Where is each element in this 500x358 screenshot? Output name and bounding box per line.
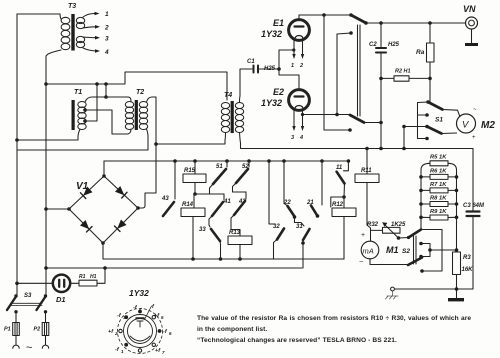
wire alt contact top down to E2 pin4 wire — [337, 33, 351, 115]
svg-text:E1: E1 — [273, 18, 284, 28]
svg-text:R5 1K: R5 1K — [430, 155, 447, 161]
wire bridge top to bus3 — [103, 161, 105, 176]
wire T4 secondary bottom to long bus — [240, 133, 474, 149]
svg-text:41: 41 — [223, 199, 231, 205]
E2 pin 3 lead — [293, 111, 295, 128]
resistor R2 — [394, 76, 409, 81]
terminal chassis — [391, 287, 395, 291]
S1 bracket — [418, 102, 429, 139]
svg-text:31: 31 — [296, 224, 303, 230]
svg-text:R13: R13 — [229, 230, 241, 236]
bus3 horizontal y161 — [104, 160, 349, 162]
svg-text:~: ~ — [26, 342, 32, 354]
wire top rail to VN — [366, 22, 465, 24]
switch gang shaft — [357, 25, 359, 116]
switch 21 — [320, 159, 324, 163]
wire S1 top blade to voltmeter — [443, 110, 460, 117]
svg-text:22: 22 — [283, 200, 291, 206]
wire bridge bottom to bus1 — [102, 243, 104, 259]
node T1 tap upper — [83, 108, 87, 112]
svg-text:S3: S3 — [24, 293, 32, 299]
switch blade top (reversing) — [351, 15, 366, 23]
switch 51 — [225, 159, 229, 163]
wire E2 pin4 to switch pole2 — [303, 114, 351, 116]
switch 32 — [267, 159, 271, 163]
E2 pin 4 lead — [302, 111, 304, 128]
svg-text:T1: T1 — [74, 89, 82, 96]
svg-text:C1: C1 — [247, 59, 255, 65]
T3 pin 1 lead — [83, 14, 94, 18]
transformer T2 — [125, 100, 147, 130]
capacitor C2 — [380, 23, 382, 47]
svg-text:M2: M2 — [481, 120, 495, 131]
resistor ladder R8 — [430, 202, 448, 207]
resistor R14 — [181, 208, 205, 217]
svg-text:11: 11 — [336, 165, 343, 171]
svg-text:P1: P1 — [4, 327, 11, 333]
transformer T3 — [60, 14, 85, 51]
V1 diode top-right — [115, 186, 127, 198]
svg-text:R15: R15 — [184, 168, 196, 174]
switch 33 — [211, 229, 220, 241]
svg-text:R32: R32 — [367, 222, 379, 228]
svg-text:3: 3 — [105, 36, 109, 43]
resistor R13 — [228, 236, 252, 245]
T3 pin 3 lead — [83, 36, 96, 39]
svg-text:21: 21 — [306, 200, 314, 206]
svg-text:R14: R14 — [182, 202, 194, 208]
svg-text:4: 4 — [299, 135, 303, 141]
resistor Ra — [429, 23, 431, 43]
socket pin labels — [108, 304, 172, 355]
V1 diode top-left — [81, 187, 93, 199]
switch 42 — [245, 192, 247, 199]
voltmeter M2 — [457, 114, 476, 133]
svg-text:M1: M1 — [386, 245, 399, 255]
resistor ladder R9 — [430, 215, 448, 220]
socket pins — [138, 310, 142, 314]
resistor ladder R5 — [430, 161, 448, 166]
svg-text:in the component list.: in the component list. — [197, 326, 267, 333]
svg-text:The value of the resistor Ra i: The value of the resistor Ra is chosen f… — [197, 315, 471, 322]
node on wire y84 — [104, 82, 108, 86]
wire junction to T1-T2 top — [105, 84, 107, 97]
svg-text:R3: R3 — [463, 255, 471, 261]
svg-text:VN: VN — [463, 4, 476, 14]
wire rail B — [45, 56, 47, 297]
wire blade bottom tip to C2 column — [364, 122, 381, 124]
svg-text:+: + — [361, 232, 365, 239]
E1 pin 2 lead — [302, 41, 304, 56]
svg-text:mA: mA — [363, 247, 374, 256]
svg-text:H1: H1 — [90, 274, 97, 280]
wire y194 link — [195, 193, 224, 195]
resistor R11 — [365, 147, 369, 151]
wire rail A left — [16, 14, 18, 297]
tube E1 — [289, 15, 310, 40]
E1 pin 1 lead — [293, 41, 295, 56]
wire T2 right top down to bridge right vertex — [138, 97, 156, 208]
resistor ladder R7 — [430, 188, 448, 193]
resistor R1 — [70, 282, 79, 284]
milliammeter M1 — [361, 241, 379, 259]
svg-text:2: 2 — [299, 63, 303, 69]
svg-text:2: 2 — [114, 331, 118, 336]
svg-text:H25: H25 — [264, 66, 276, 72]
svg-text:1K25: 1K25 — [391, 222, 406, 228]
T3 pin labels — [104, 11, 109, 56]
lamp D1 — [53, 275, 70, 292]
bus2 horizontal y268 — [46, 267, 302, 269]
switch 11 — [344, 161, 349, 171]
svg-text:T3: T3 — [68, 3, 76, 10]
V1 diode bottom-left — [80, 220, 92, 232]
switch S2 top blade — [409, 230, 422, 238]
wire C1 to E2 top — [279, 69, 299, 89]
switch 22 — [282, 159, 286, 163]
svg-text:51: 51 — [216, 164, 223, 170]
node C1 output — [277, 67, 281, 71]
resistor R32 (adjustable) — [371, 230, 383, 241]
svg-text:2: 2 — [104, 25, 109, 32]
svg-text:1: 1 — [291, 63, 294, 69]
svg-text:32: 32 — [273, 224, 280, 230]
ground under VN — [471, 29, 473, 43]
switch 31 — [303, 229, 310, 240]
ground bar bottom right — [448, 298, 464, 301]
wire T1 top to T2 top — [85, 97, 131, 102]
node R2 junction — [428, 77, 432, 81]
wire bridge left vertex to rail B — [46, 208, 69, 210]
fuse P1 — [15, 312, 17, 323]
wire D1 left to rail A — [17, 282, 53, 284]
svg-text:V1: V1 — [76, 181, 89, 192]
bus1 horizontal y259 — [103, 258, 344, 260]
svg-text:R7 1K: R7 1K — [430, 182, 447, 188]
svg-text:1Y32: 1Y32 — [261, 29, 282, 39]
wire rail B to T4 primary top — [46, 72, 227, 100]
wire x324 vertical to lower alt contact — [324, 15, 350, 130]
S2 middle contacts — [419, 242, 423, 246]
node x324 tap — [322, 13, 326, 17]
svg-text:D1: D1 — [56, 295, 66, 304]
terminal VN — [466, 17, 478, 29]
svg-text:R11: R11 — [361, 168, 372, 174]
wire ground bus y289 — [395, 288, 457, 290]
svg-text:42: 42 — [238, 199, 246, 205]
switch 43 — [173, 159, 177, 163]
wire T4 primary bottom to T2 wire — [156, 133, 226, 145]
resistor R12 — [332, 208, 356, 217]
switch blade bottom (reversing) — [350, 115, 364, 123]
tube E2 — [289, 90, 310, 111]
svg-text:43: 43 — [161, 196, 169, 202]
ladder bottom to S2 — [420, 217, 422, 230]
svg-text:“Technological changes are res: “Technological changes are reserved” TES… — [197, 337, 397, 344]
switch 41 — [223, 194, 225, 200]
wire T1 bottom to rail A — [17, 129, 80, 140]
S2 shaft — [413, 236, 415, 264]
svg-text:R8 1K: R8 1K — [430, 195, 447, 201]
wire T3 primary bottom to rail B — [46, 50, 61, 56]
rectifier bridge V1 — [67, 174, 140, 245]
svg-text:1Y32: 1Y32 — [129, 288, 149, 298]
svg-text:1: 1 — [105, 11, 109, 18]
node rail B junction — [44, 82, 48, 86]
fuse P2 — [45, 312, 47, 323]
alt contact top — [349, 31, 353, 35]
wire C1 to E1 pin1 — [279, 50, 294, 69]
svg-text:R1: R1 — [79, 274, 86, 280]
svg-text:1Y32: 1Y32 — [261, 98, 282, 108]
switch 52 — [247, 159, 251, 163]
wire tap2 up to y84 wire — [85, 84, 97, 121]
svg-text:E2: E2 — [273, 87, 284, 97]
svg-text:R12: R12 — [332, 202, 344, 208]
svg-text:~: ~ — [473, 107, 477, 113]
svg-text:R2 H1: R2 H1 — [395, 69, 411, 75]
wire T2 right bottom to rail A — [17, 129, 148, 150]
switch S1 — [426, 100, 430, 104]
node T1 tap lower — [83, 119, 87, 123]
V1 diode bottom-right — [115, 220, 127, 232]
svg-text:T2: T2 — [136, 89, 144, 96]
svg-text:C3 64M: C3 64M — [463, 203, 485, 209]
svg-text:T4: T4 — [224, 92, 232, 99]
resistor R3 — [456, 217, 458, 252]
svg-text:S2: S2 — [402, 248, 410, 255]
resistor ladder R6 — [430, 174, 448, 179]
wire T4 secondary top to C1 — [240, 69, 253, 103]
svg-text:52: 52 — [242, 164, 249, 170]
svg-text:3: 3 — [291, 135, 294, 141]
svg-text:P2: P2 — [34, 327, 41, 333]
capacitor C1 — [254, 66, 259, 73]
wire tap1 to T2 left bottom — [85, 110, 131, 134]
switch S2 bottom blade — [408, 258, 422, 266]
svg-text:H25: H25 — [388, 42, 400, 48]
wire mA bottom to S2 — [370, 259, 408, 265]
wire T3 top to rail A — [17, 13, 60, 15]
node E1 top / reversing switch pole1 — [349, 13, 353, 17]
svg-text:C2: C2 — [369, 42, 377, 48]
capacitor C3 — [472, 149, 474, 212]
svg-text:S1: S1 — [435, 117, 443, 124]
chassis ground symbol — [386, 291, 399, 299]
T3 pin 4 lead — [83, 48, 96, 51]
svg-text:16K: 16K — [462, 267, 474, 273]
svg-text:4: 4 — [138, 307, 142, 312]
resistor R15 — [193, 159, 197, 163]
svg-text:R6 1K: R6 1K — [430, 168, 447, 174]
svg-text:−: − — [359, 259, 363, 266]
note text — [197, 315, 471, 344]
svg-text:Ra: Ra — [416, 49, 425, 56]
transformer T1 — [72, 100, 87, 130]
node R12 top — [342, 195, 346, 199]
T3 pin 2 lead — [83, 27, 96, 28]
svg-text:33: 33 — [199, 227, 206, 233]
svg-text:+: + — [472, 135, 476, 141]
wire E1 anode top line — [299, 14, 351, 16]
svg-text:R9 1K: R9 1K — [430, 209, 447, 215]
S1 feed from bus — [402, 125, 406, 129]
transformer T4 — [221, 101, 243, 133]
switch S3 — [14, 294, 17, 297]
svg-text:4: 4 — [104, 49, 109, 56]
